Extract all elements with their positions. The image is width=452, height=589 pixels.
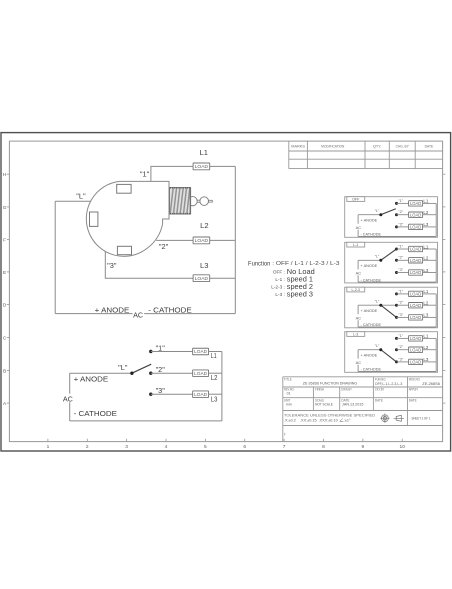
mini L-2-3: bottom cathode wire: [358, 326, 436, 328]
mini L-1: load L1: [409, 246, 423, 251]
svg-text:LOAD: LOAD: [410, 336, 421, 341]
svg-text:"2": "2": [156, 365, 166, 374]
mini L-3: bottom cathode wire: [358, 371, 436, 373]
mini OFF: wire load L3 to right bus: [423, 226, 437, 228]
mini L-3: load L2: [409, 347, 423, 352]
svg-text:L3: L3: [200, 261, 208, 270]
svg-text:L2: L2: [200, 221, 208, 230]
mini OFF: wire contact to load L2: [397, 214, 409, 216]
mini L-1: wire load L2 to right bus: [423, 259, 437, 261]
svg-text:E: E: [3, 270, 6, 276]
mini L-1: wire load L3 to right bus: [423, 272, 437, 274]
mini L-1: contact node "3": [395, 271, 398, 274]
schematic: pivot node L: [130, 372, 133, 375]
pull chain end stub: [209, 200, 213, 202]
svg-text:AC: AC: [356, 225, 362, 230]
svg-text:CKY.BY: CKY.BY: [375, 387, 385, 391]
load L3: [193, 275, 210, 282]
svg-text:1: 1: [47, 444, 50, 450]
svg-text:AC: AC: [356, 360, 362, 365]
pull chain ball 1 (partly behind bushing): [188, 197, 197, 206]
svg-text:LOAD: LOAD: [410, 360, 421, 365]
svg-text:L3: L3: [423, 357, 428, 362]
svg-text:+ ANODE: + ANODE: [74, 375, 109, 384]
mini L-1: wire contact to load L3: [397, 272, 409, 274]
schematic: bottom cathode wire: [70, 420, 222, 422]
mini OFF: wire load L1 to right bus: [423, 202, 437, 204]
mini L-2-3: contact node "3": [395, 316, 398, 319]
svg-text:L-1: L-1: [353, 243, 358, 247]
svg-text:MOD.NO.: MOD.NO.: [409, 377, 421, 381]
mini OFF: wire load L2 to right bus: [423, 214, 437, 216]
svg-text:Function: Function: [248, 260, 271, 267]
svg-text:5: 5: [204, 444, 207, 450]
svg-text:L1: L1: [423, 334, 428, 339]
svg-text:L1: L1: [423, 199, 428, 204]
mini L-2-3: load L1: [409, 291, 423, 296]
mini OFF: contact node "3": [395, 225, 398, 228]
schematic: contact node 2: [149, 372, 152, 375]
svg-text:+ ANODE: + ANODE: [361, 217, 378, 222]
schematic: load L2: [193, 370, 209, 377]
svg-text:MODIFICATION: MODIFICATION: [321, 145, 344, 149]
mini L-2-3: contact node "2": [395, 304, 398, 307]
pull chain ball 2: [200, 197, 209, 206]
svg-text:DATE: DATE: [409, 398, 418, 402]
svg-text:OFF,L-1,L-2-3,L-3: OFF,L-1,L-2-3,L-3: [375, 381, 402, 386]
svg-text:TOLERANCE UNLESS OTHERWISE SPE: TOLERANCE UNLESS OTHERWISE SPECIFIED: [284, 413, 376, 417]
svg-text:"3": "3": [107, 261, 117, 270]
svg-text:LOAD: LOAD: [410, 292, 421, 297]
mini L-2-3: load L3: [409, 315, 423, 320]
svg-text:"2": "2": [399, 210, 404, 214]
svg-text:"L": "L": [375, 299, 380, 303]
mini OFF: right bus wire: [435, 203, 437, 236]
svg-text:+ ANODE: + ANODE: [95, 305, 130, 314]
mini L-3: contact node "2": [395, 348, 398, 351]
third angle projection symbol (side view): [394, 415, 404, 421]
mini L-2-3: wire contact to load L2: [397, 304, 409, 306]
mini diagram OFF: tab label: [347, 197, 365, 202]
svg-text:LOAD: LOAD: [195, 276, 209, 282]
mini L-1: wire contact to load L2: [397, 259, 409, 261]
wire from terminal 1 to load L1: [151, 166, 193, 181]
left margin zone letters H-A with ticks: [3, 172, 446, 407]
svg-text:speed 3: speed 3: [287, 290, 313, 299]
mini OFF: load L2: [409, 212, 423, 217]
svg-text:10: 10: [400, 444, 406, 450]
wire load L2 to right bus: [210, 239, 236, 241]
svg-text:LOAD: LOAD: [410, 225, 421, 230]
schematic: load L3: [193, 391, 209, 398]
svg-text:L3: L3: [423, 222, 428, 227]
svg-text:L2: L2: [211, 375, 218, 382]
svg-text:JAN.13.2015: JAN.13.2015: [342, 402, 363, 407]
mini L-1: wire contact to load L1: [397, 248, 409, 250]
title block outline: [283, 377, 443, 442]
mini L-1: left bus wire: [357, 260, 359, 269]
mini L-1: load L2: [409, 258, 423, 263]
mini L-2-3: wire pivot to contact 2: [381, 304, 397, 306]
svg-text:L1: L1: [199, 148, 207, 157]
terminal 1 (top): [117, 184, 131, 193]
svg-text:4: 4: [165, 444, 168, 450]
title block row 1 texts: [284, 377, 440, 386]
third angle projection symbol (front view): [380, 414, 389, 423]
stray mark bottom-left of title block: [284, 433, 286, 436]
schematic: right bus wire: [221, 352, 223, 421]
svg-text:ZE-268S6 FUNCTION DRAWING: ZE-268S6 FUNCTION DRAWING: [303, 381, 358, 386]
schematic: wire load L2 to right bus: [209, 372, 222, 374]
svg-text:LOAD: LOAD: [410, 258, 421, 263]
schematic: switch blade L (off position): [132, 364, 151, 373]
svg-text:"1": "1": [156, 343, 166, 352]
mini L-3: blade to contact 3: [381, 350, 397, 362]
svg-text:"L": "L": [375, 254, 380, 258]
svg-text:OFF: OFF: [352, 198, 360, 202]
svg-text:L-1 :: L-1 :: [275, 277, 284, 282]
mini L-3: contact node "3": [395, 360, 398, 363]
svg-text:+ ANODE: + ANODE: [361, 352, 378, 357]
terminal 3 (bottom): [117, 246, 131, 254]
svg-text:DATE: DATE: [425, 145, 434, 149]
label AC: [133, 310, 145, 318]
mini L-1: wire load L1 to right bus: [423, 248, 437, 250]
mini L-3: left bus wire: [357, 350, 359, 359]
svg-text:"2": "2": [399, 301, 404, 305]
svg-text:CHG. BY: CHG. BY: [396, 145, 410, 149]
svg-text:OFF :: OFF :: [273, 269, 285, 274]
svg-text:QTY.: QTY.: [373, 145, 381, 149]
svg-text:- CATHODE: - CATHODE: [361, 322, 382, 327]
svg-text:"2": "2": [159, 242, 169, 251]
mini L-2-3: wire load L2 to right bus: [423, 304, 437, 306]
schematic: wire anode bus to pivot: [70, 372, 132, 374]
svg-text:"1": "1": [399, 334, 404, 338]
mini diagram L-2-3: tab label: [347, 287, 365, 292]
wire L from left bus to switch body: [55, 200, 90, 202]
svg-text:FINISH: FINISH: [315, 387, 324, 391]
mini L-3: wire contact to load L2: [397, 349, 409, 351]
svg-text:LOAD: LOAD: [410, 347, 421, 352]
mini L-2-3: wire contact to load L1: [397, 293, 409, 295]
mini OFF: wire contact to load L3: [397, 226, 409, 228]
mini L-1: blade to contact 1: [381, 249, 397, 260]
mini L-2-3: blade to contact 3: [381, 305, 397, 317]
svg-text:LOAD: LOAD: [410, 303, 421, 308]
mini L-1: bottom cathode wire: [358, 281, 436, 283]
svg-text:"L": "L": [375, 209, 380, 213]
svg-text:LOAD: LOAD: [410, 212, 421, 217]
svg-text:L-3: L-3: [353, 333, 358, 337]
svg-text:L2: L2: [423, 256, 428, 261]
svg-text:9: 9: [362, 444, 365, 450]
mini L-2-3: wire load L3 to right bus: [423, 316, 437, 318]
schematic: contact node 1: [149, 350, 152, 353]
wire load L3 to right bus: [210, 277, 236, 279]
svg-text:3: 3: [125, 444, 128, 450]
rotary fan switch body outline: [86, 181, 169, 256]
load L2: [193, 237, 210, 244]
function legend text: [248, 260, 340, 298]
svg-text:AC: AC: [63, 395, 73, 404]
svg-text:ZE-268S6: ZE-268S6: [422, 381, 440, 386]
mini L-2-3: right bus wire: [435, 294, 437, 327]
svg-text:"1": "1": [399, 289, 404, 293]
wire from terminal 3 to load L3: [105, 251, 193, 278]
mini L-3: wire load L3 to right bus: [423, 361, 437, 363]
mini L-2-3: pivot node L: [379, 304, 382, 307]
mini diagram L-1: tab label: [347, 242, 365, 247]
load L1: [193, 163, 210, 170]
svg-text:L2: L2: [423, 301, 428, 306]
mini L-2-3: anode wire to pivot: [358, 304, 381, 306]
mini L-2-3: contact node "1": [395, 292, 398, 295]
svg-text:NOT SCALE: NOT SCALE: [315, 403, 333, 407]
svg-text:MARKS: MARKS: [291, 145, 305, 149]
mini diagram L-3: tab label: [347, 332, 365, 337]
svg-text:DATE: DATE: [375, 398, 384, 402]
svg-text:8: 8: [322, 444, 325, 450]
schematic: wire load L1 to right bus: [209, 351, 222, 353]
schematic: wire node3 to load L3: [151, 393, 193, 395]
left bus wire: [54, 201, 56, 313]
svg-text:- CATHODE: - CATHODE: [74, 409, 117, 418]
svg-text:- CATHODE: - CATHODE: [148, 305, 191, 314]
mini OFF: left bus wire: [357, 215, 359, 224]
bottom margin zone numbers 1-10 with ticks: [47, 439, 406, 450]
mini OFF: contact node "2": [395, 213, 398, 216]
schematic label AC: [63, 394, 75, 403]
svg-text:"2": "2": [399, 345, 404, 349]
title block row 3 texts: [284, 398, 417, 406]
svg-text:"3": "3": [156, 386, 166, 395]
mini L-3: wire load L2 to right bus: [423, 349, 437, 351]
svg-text:C: C: [3, 336, 7, 342]
svg-text:.X:±0.2: .X:±0.2: [284, 419, 296, 423]
title block row 2 texts: [284, 387, 419, 395]
svg-text:"1": "1": [140, 170, 150, 179]
mini L-3: pivot node L: [379, 348, 382, 351]
svg-text:D: D: [3, 303, 7, 309]
svg-text:L1: L1: [423, 244, 428, 249]
svg-text:.XX:±0.15: .XX:±0.15: [300, 419, 317, 423]
mini L-3: anode wire to pivot: [358, 349, 381, 351]
svg-text:DWN.BY: DWN.BY: [341, 387, 352, 391]
mini diagram OFF: box: [345, 197, 438, 238]
svg-text:- CATHODE: - CATHODE: [361, 277, 382, 282]
svg-text:"L": "L": [375, 344, 380, 348]
svg-text:+ ANODE: + ANODE: [361, 308, 378, 313]
pull chain link: [197, 199, 200, 201]
svg-text:2: 2: [86, 444, 89, 450]
mini OFF: wire contact to load L1: [397, 202, 409, 204]
mini L-1: load L3: [409, 270, 423, 275]
wire from body to load L2: [156, 239, 193, 241]
mini OFF: contact node "1": [395, 202, 398, 205]
svg-text:SHEET 1 OF 1: SHEET 1 OF 1: [412, 417, 431, 421]
schematic: left bus wire: [69, 373, 71, 421]
svg-text:LOAD: LOAD: [410, 247, 421, 252]
svg-text:AC: AC: [356, 316, 362, 321]
mini OFF: load L1: [409, 201, 423, 206]
svg-text:L1: L1: [423, 289, 428, 294]
svg-text:L-2-3: L-2-3: [352, 288, 360, 292]
mini L-2-3: left bus wire: [357, 305, 359, 314]
svg-text:6: 6: [243, 444, 246, 450]
title block row 4 tolerance texts: [284, 413, 376, 422]
drawing frame: inner border: [9, 141, 442, 442]
svg-text:LOAD: LOAD: [410, 201, 421, 206]
svg-text:"1": "1": [399, 244, 404, 248]
mini L-1: pivot node L: [379, 259, 382, 262]
mini L-3: wire load L1 to right bus: [423, 337, 437, 339]
mini L-2-3: wire load L1 to right bus: [423, 293, 437, 295]
svg-text:B: B: [3, 369, 6, 375]
revision table (MARKS/MODIFICATION/QTY./CHG. BY/DATE): [289, 141, 443, 169]
schematic: load L1: [193, 348, 209, 355]
svg-text:01: 01: [287, 392, 291, 396]
svg-text:AC: AC: [133, 310, 143, 319]
svg-text:LOAD: LOAD: [195, 164, 209, 170]
svg-text:"3": "3": [399, 268, 404, 272]
svg-text:L2: L2: [423, 210, 428, 215]
svg-text:"3": "3": [399, 357, 404, 361]
mini OFF: load L3: [409, 224, 423, 229]
svg-text:L-3 :: L-3 :: [275, 292, 284, 297]
svg-text:.XXX:±0.10: .XXX:±0.10: [319, 419, 338, 423]
svg-text:LOAD: LOAD: [194, 392, 207, 397]
mini L-3: right bus wire: [435, 338, 437, 371]
svg-text:LOAD: LOAD: [194, 349, 207, 354]
mini OFF: bottom cathode wire: [358, 236, 436, 238]
mini L-3: load L1: [409, 336, 423, 341]
mini diagram L-3: box: [345, 332, 438, 373]
svg-text:G: G: [3, 205, 7, 211]
right bus wire: [234, 166, 236, 313]
svg-text:mm: mm: [286, 403, 292, 407]
mini L-1: right bus wire: [435, 249, 437, 282]
svg-text:LOAD: LOAD: [195, 238, 209, 244]
svg-text:L3: L3: [423, 313, 428, 318]
svg-text:L2: L2: [423, 345, 428, 350]
svg-text:"L": "L": [76, 192, 86, 201]
svg-text:"2": "2": [399, 256, 404, 260]
svg-text:7: 7: [283, 444, 286, 450]
terminal L (left): [90, 212, 98, 226]
svg-text:- CATHODE: - CATHODE: [361, 232, 382, 237]
mini diagram L-1: box: [345, 242, 438, 283]
schematic: wire node2 to load L2: [151, 372, 193, 374]
svg-text:"1": "1": [399, 199, 404, 203]
svg-text:APP.BY: APP.BY: [409, 387, 419, 391]
mini L-3: wire contact to load L1: [397, 337, 409, 339]
svg-text:+ ANODE: + ANODE: [361, 263, 378, 268]
svg-text:LOAD: LOAD: [410, 270, 421, 275]
mini L-1: contact node "1": [395, 248, 398, 251]
svg-text::±1°: :±1°: [344, 419, 351, 423]
svg-text:H: H: [3, 172, 7, 178]
wire load L1 to right bus: [210, 165, 236, 167]
bottom AC supply wire: [55, 313, 235, 315]
svg-text:- CATHODE: - CATHODE: [361, 367, 382, 372]
mini L-3: contact node "1": [395, 337, 398, 340]
mini OFF: blade (off): [381, 209, 396, 215]
svg-text:L3: L3: [211, 397, 218, 404]
mini OFF: anode wire to pivot: [358, 214, 381, 216]
svg-text:"3": "3": [399, 313, 404, 317]
svg-text:TITLE: TITLE: [284, 377, 292, 381]
svg-text:LOAD: LOAD: [194, 371, 207, 376]
mini diagram L-2-3: box: [345, 287, 438, 328]
mini L-3: wire contact to load L3: [397, 361, 409, 363]
svg-text:"3": "3": [399, 222, 404, 226]
svg-text:AC: AC: [356, 271, 362, 276]
svg-text:F: F: [3, 237, 6, 243]
svg-text:LOAD: LOAD: [410, 315, 421, 320]
mini L-3: load L3: [409, 359, 423, 364]
mini L-1: anode wire to pivot: [358, 259, 381, 261]
svg-text:"L": "L": [118, 363, 128, 372]
schematic: wire load L3 to right bus: [209, 393, 222, 395]
mini OFF: pivot node L: [379, 213, 382, 216]
mini L-2-3: wire contact to load L3: [397, 316, 409, 318]
svg-text:L3: L3: [423, 268, 428, 273]
schematic: wire node1 to load L1: [151, 351, 193, 353]
mini L-2-3: load L2: [409, 303, 423, 308]
svg-text:L-2-3 :: L-2-3 :: [271, 285, 285, 290]
drawing frame: outer border: [1, 133, 451, 451]
svg-text:L1: L1: [211, 353, 217, 360]
mini L-1: contact node "2": [395, 259, 398, 262]
schematic: contact node 3: [149, 393, 152, 396]
